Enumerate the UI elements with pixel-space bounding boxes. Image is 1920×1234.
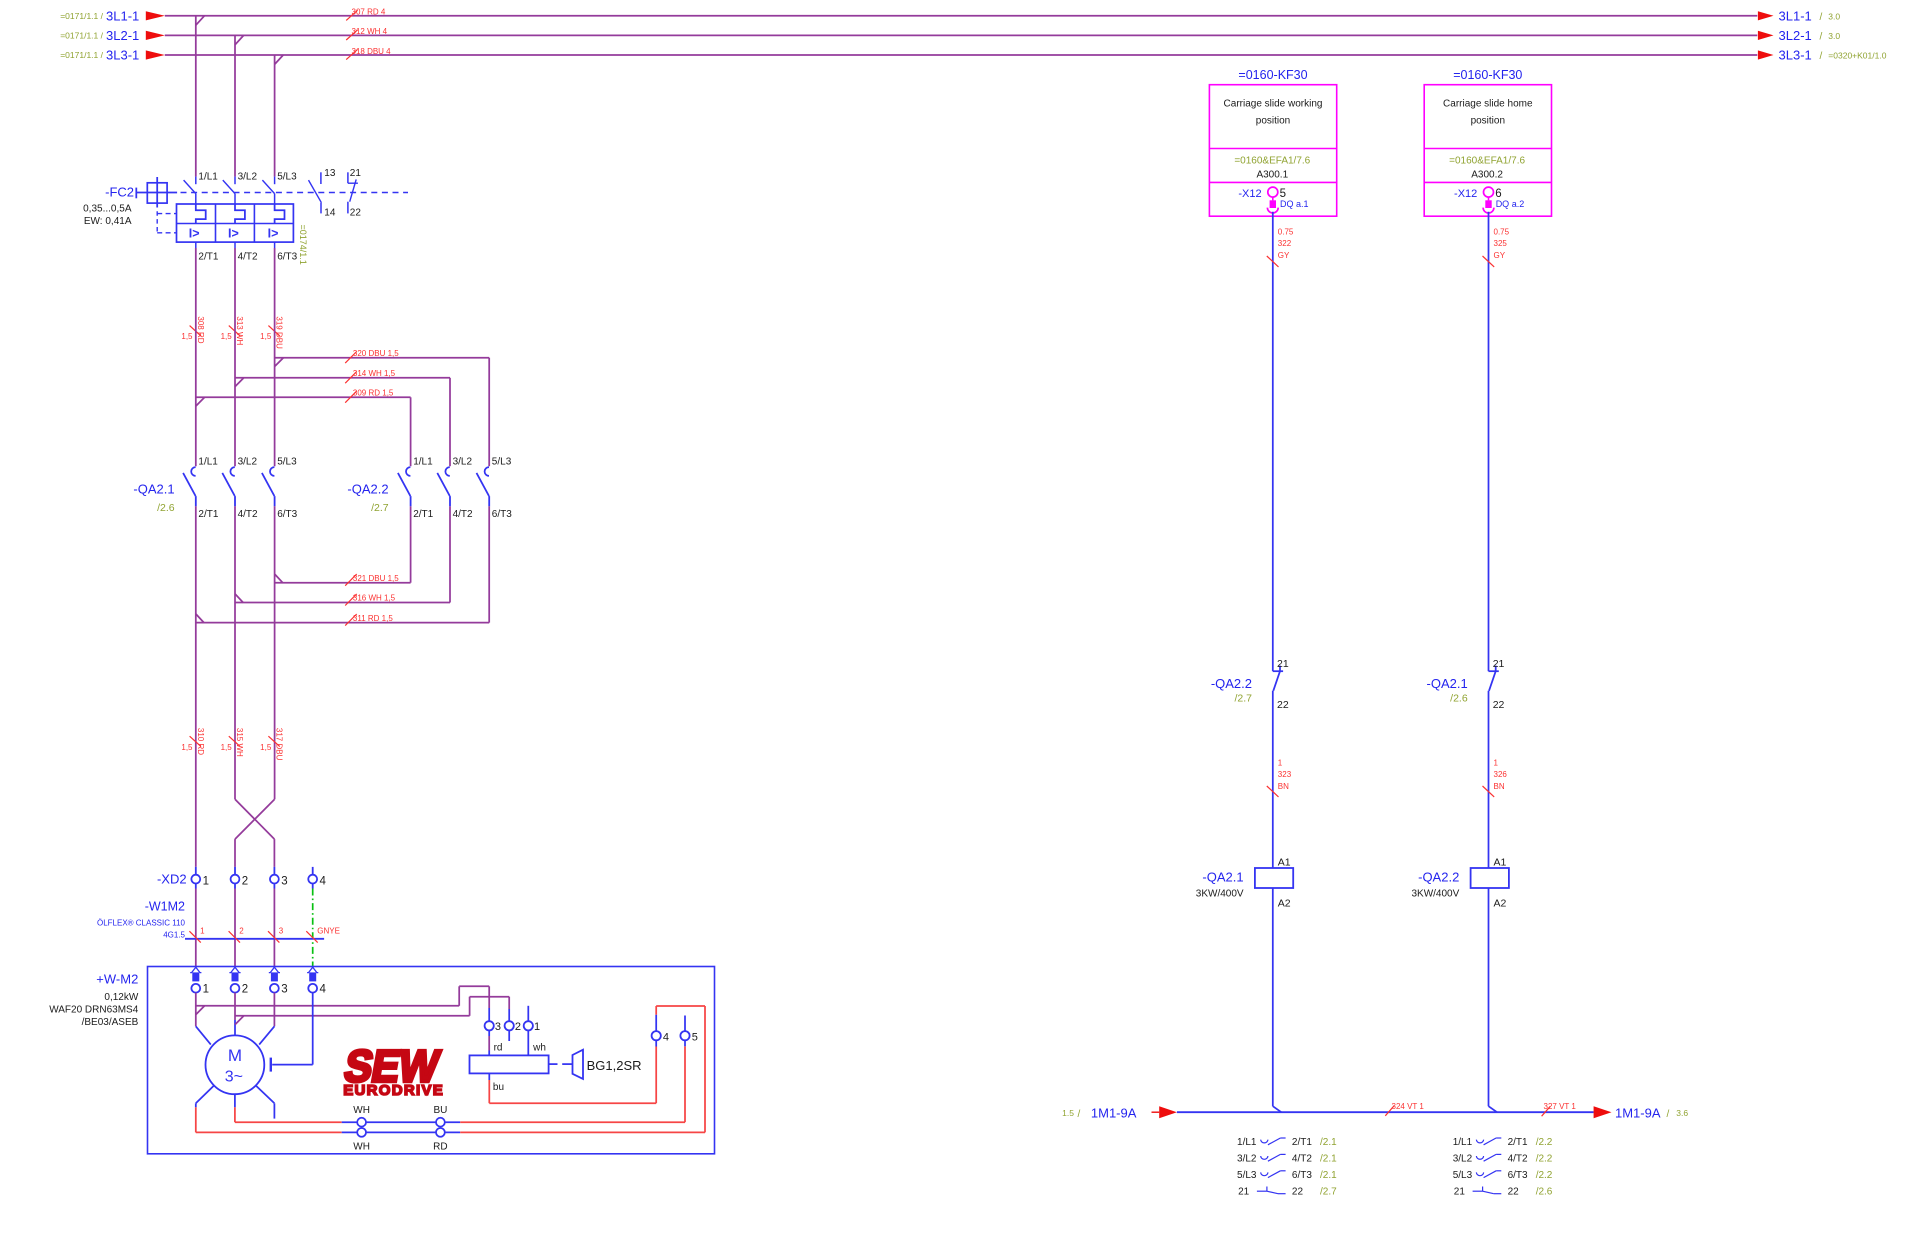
- svg-text:-X12: -X12: [1238, 188, 1261, 200]
- svg-text:BN: BN: [1494, 782, 1505, 791]
- PLC function text Carriage slide working position: [1224, 98, 1323, 126]
- svg-text:GY: GY: [1494, 251, 1506, 260]
- wire bus 3L1-1 horizontal: [165, 16, 1758, 25]
- contactor -QA2.2 NC contact 21/22: [1273, 661, 1283, 691]
- svg-text:319 DBU: 319 DBU: [275, 316, 284, 349]
- motor plug terminal 4: [307, 967, 318, 992]
- breaker FC2 thermal overload box: [177, 204, 294, 242]
- svg-text:BU: BU: [433, 1105, 447, 1116]
- wire bus 3L3-1 horizontal: [165, 55, 1758, 64]
- splice WH lower: [357, 1128, 366, 1137]
- svg-text:4/T2: 4/T2: [238, 509, 258, 520]
- wire L1 QA2.1 to XD2 terminal 1: [195, 506, 197, 867]
- svg-text:5: 5: [1280, 188, 1286, 200]
- svg-text:3.0: 3.0: [1828, 11, 1840, 21]
- svg-text:5/L3: 5/L3: [277, 456, 297, 467]
- svg-text:0,12kW: 0,12kW: [104, 992, 138, 1003]
- svg-text:6/T3: 6/T3: [277, 509, 297, 520]
- svg-text:2/T1: 2/T1: [198, 509, 218, 520]
- svg-text:4/T2: 4/T2: [238, 251, 258, 262]
- svg-text:4: 4: [320, 983, 327, 995]
- svg-text:rd: rd: [494, 1043, 503, 1054]
- wire PE from plug 4 to motor: [272, 993, 313, 1065]
- PLC output box =0160-KF30 (6): [1424, 85, 1551, 217]
- svg-text:308 RD: 308 RD: [196, 316, 205, 343]
- svg-text:3L1-1: 3L1-1: [1779, 8, 1812, 23]
- wire branch to brake terminal 3 (staircase): [196, 986, 489, 1021]
- svg-text:2: 2: [242, 875, 248, 887]
- svg-text:4: 4: [320, 875, 327, 887]
- wire L2 feeder drop to FC2: [234, 35, 236, 176]
- svg-text:A300.2: A300.2: [1471, 169, 1503, 180]
- splice WH upper: [357, 1118, 366, 1127]
- svg-text:-FC2: -FC2: [105, 185, 134, 200]
- svg-text:1: 1: [1278, 758, 1283, 767]
- wire label 327 VT 1: [1542, 1102, 1577, 1116]
- wire rd into rectifier: [488, 1030, 490, 1055]
- svg-text:1: 1: [200, 927, 205, 936]
- svg-text:312 WH 4: 312 WH 4: [352, 27, 388, 36]
- svg-text:1,5: 1,5: [221, 743, 233, 752]
- wire brake 5 stub: [684, 1016, 686, 1032]
- wire splice line lower (WH-RD): [342, 1131, 461, 1133]
- svg-text:307 RD 4: 307 RD 4: [352, 8, 386, 17]
- svg-text:WH: WH: [353, 1142, 370, 1153]
- wire XD2:3 to motor plug: [273, 889, 275, 967]
- svg-text:311 RD 1,5: 311 RD 1,5: [353, 614, 393, 623]
- wire label 319 DBU 1,5: [260, 316, 283, 349]
- coil -QA2.1: [1255, 868, 1293, 888]
- svg-text:315 WH: 315 WH: [235, 728, 244, 757]
- svg-text:I>: I>: [228, 226, 239, 240]
- contactor QA2.1 main contact 5/L3/6/T3: [262, 467, 275, 506]
- svg-text:3KW/400V: 3KW/400V: [1411, 889, 1459, 900]
- svg-text:I>: I>: [268, 226, 279, 240]
- wire label 312 WH 4: [346, 27, 387, 40]
- svg-text:1,5: 1,5: [221, 332, 233, 341]
- svg-text:3L1-1: 3L1-1: [106, 8, 139, 23]
- svg-text:3/L2: 3/L2: [453, 456, 473, 467]
- wire label 310 RD 1,5: [181, 728, 204, 755]
- wire XD2:2 to motor plug: [234, 889, 236, 967]
- svg-text:1: 1: [1494, 758, 1499, 767]
- svg-text:1.5: 1.5: [1062, 1108, 1074, 1118]
- wire motor brake lead left: [196, 1086, 342, 1133]
- breaker FC2 thermal element 1: [196, 204, 206, 224]
- svg-text:2: 2: [515, 1021, 521, 1033]
- svg-text:21: 21: [1493, 658, 1505, 670]
- contactor QA2.2 main contact 1/L1/2/T1: [398, 467, 411, 506]
- svg-text:/: /: [1820, 12, 1823, 23]
- node 3L1-1 source arrow and label: [60, 8, 165, 23]
- wire L3 FC2 to QA2.1: [274, 242, 276, 466]
- wire branch 314 from L2 to QA2.2: [235, 378, 450, 466]
- terminal XD2:3: [270, 867, 279, 889]
- svg-text:5/L3: 5/L3: [1237, 1170, 1257, 1181]
- wire label 325 0.75 GY: [1483, 227, 1510, 267]
- wire contact to coil: [1272, 691, 1274, 868]
- breaker FC2 cross reference =0174/1.1: [298, 225, 308, 265]
- svg-text:EURODRIVE: EURODRIVE: [343, 1082, 444, 1099]
- motor unit box W-M2: [148, 967, 715, 1154]
- svg-text:318 DBU 4: 318 DBU 4: [352, 47, 392, 56]
- svg-text:/2.7: /2.7: [1234, 693, 1252, 705]
- svg-text:A2: A2: [1494, 897, 1507, 909]
- contact mirror QA2.1 3/L2-4/T2 /2.1: [1237, 1154, 1337, 1165]
- svg-text:EW: 0,41A: EW: 0,41A: [84, 216, 132, 227]
- svg-text:/2.6: /2.6: [1450, 693, 1468, 705]
- wire label 316 WH 1,5: [345, 594, 395, 606]
- svg-text:1/L1: 1/L1: [1237, 1137, 1257, 1148]
- svg-text:2/T1: 2/T1: [1508, 1137, 1528, 1148]
- wire motor phase W inside box: [259, 993, 274, 1045]
- wire splice line upper (WH-BU): [342, 1121, 461, 1123]
- svg-text:2/T1: 2/T1: [198, 251, 218, 262]
- svg-text:-QA2.2: -QA2.2: [1418, 870, 1459, 885]
- wire L3 feeder drop to FC2: [274, 55, 276, 177]
- svg-text:=0160-KF30: =0160-KF30: [1453, 68, 1522, 82]
- svg-text:I>: I>: [189, 226, 200, 240]
- svg-text:3~: 3~: [225, 1069, 243, 1086]
- terminal XD2:2: [231, 867, 240, 889]
- svg-text:GY: GY: [1278, 251, 1290, 260]
- svg-text:=0171/1.1 /: =0171/1.1 /: [60, 11, 103, 21]
- svg-text:22: 22: [350, 207, 362, 218]
- contact mirror QA2.1 21-22 /2.7: [1238, 1186, 1337, 1197]
- brake terminal 4: [652, 1031, 661, 1040]
- svg-text:=0160&EFA1/7.6: =0160&EFA1/7.6: [1234, 155, 1310, 166]
- motor plug terminal 3: [269, 967, 280, 992]
- svg-text:-X12: -X12: [1454, 188, 1477, 200]
- wire branch 311 from QA2.2 back to L1: [196, 506, 489, 622]
- cable W1M2 conductor mark 2: [229, 927, 245, 943]
- svg-text:-QA2.1: -QA2.1: [133, 482, 174, 497]
- node 1M1-9A destination arrow and label: [1594, 1105, 1689, 1120]
- wire label 313 WH 1,5: [221, 316, 244, 345]
- svg-text:13: 13: [324, 168, 336, 179]
- wire branch 316 from QA2.2 back to L2: [235, 506, 450, 602]
- wire L3 QA2.1 down to crossover: [274, 506, 276, 799]
- motor plug terminal 2: [229, 967, 240, 992]
- cable W1M2 line: [185, 938, 324, 940]
- contactor QA2.2 main contact 5/L3/6/T3: [477, 467, 490, 506]
- svg-text:DQ a.1: DQ a.1: [1280, 199, 1309, 209]
- wire brake 1 stub: [527, 1006, 529, 1021]
- svg-text:22: 22: [1277, 699, 1289, 711]
- coil -QA2.2: [1471, 868, 1509, 888]
- wire label 321 DBU 1,5: [345, 574, 399, 586]
- svg-text:5/L3: 5/L3: [277, 172, 297, 183]
- breaker FC2 main contact 1/L1/2/T1: [184, 177, 196, 204]
- svg-text:3/L2: 3/L2: [238, 456, 258, 467]
- PLC function text Carriage slide home position: [1443, 98, 1533, 126]
- svg-text:0.75: 0.75: [1494, 227, 1510, 236]
- svg-text:-QA2.2: -QA2.2: [347, 482, 388, 497]
- svg-text:Carriage slide home: Carriage slide home: [1443, 98, 1533, 109]
- svg-text:3: 3: [281, 875, 287, 887]
- svg-text:A300.1: A300.1: [1256, 169, 1288, 180]
- wire L1 FC2 to QA2.1: [195, 242, 197, 466]
- wire brake 4 to bu node: [489, 1040, 656, 1103]
- wire label 309 RD 1,5: [345, 389, 394, 403]
- svg-text:/2.1: /2.1: [1320, 1137, 1337, 1148]
- motor PE terminal bar: [270, 1058, 272, 1072]
- svg-text:-QA2.2: -QA2.2: [1211, 676, 1252, 691]
- contactor QA2.1 main contact 1/L1/2/T1: [183, 467, 196, 506]
- node 3L3-1 destination arrow and label: [1758, 48, 1887, 63]
- svg-text:BN: BN: [1278, 782, 1289, 791]
- svg-text:14: 14: [324, 207, 336, 218]
- svg-text:/2.6: /2.6: [157, 502, 175, 514]
- cable W1M2 conductor mark GNYE: [306, 927, 340, 943]
- svg-text:3L3-1: 3L3-1: [1779, 48, 1812, 63]
- svg-text:/: /: [1667, 1109, 1670, 1120]
- wire label 318 DBU 4: [346, 47, 391, 60]
- brake release speaker symbol: [549, 1050, 583, 1079]
- svg-text:/: /: [1820, 51, 1823, 62]
- cable W1M2 conductor mark 1: [189, 927, 205, 943]
- svg-text:3: 3: [279, 927, 284, 936]
- svg-text:=0320+K01/1.0: =0320+K01/1.0: [1828, 51, 1886, 61]
- svg-text:GNYE: GNYE: [317, 927, 340, 936]
- svg-text:3/L2: 3/L2: [1453, 1154, 1473, 1165]
- wire label 324 VT 1: [1385, 1102, 1424, 1116]
- node 3L2-1 source arrow and label: [60, 28, 165, 43]
- svg-text:=0160-KF30: =0160-KF30: [1238, 68, 1307, 82]
- svg-text:4G1.5: 4G1.5: [163, 931, 185, 940]
- wire branch 320 from L3 to QA2.2: [275, 358, 490, 467]
- contact mirror QA2.2 21-22 /2.6: [1454, 1186, 1553, 1197]
- svg-text:1/L1: 1/L1: [198, 456, 218, 467]
- motor plug terminal 1: [190, 967, 201, 992]
- svg-text:4/T2: 4/T2: [453, 509, 473, 520]
- svg-text:3: 3: [281, 983, 287, 995]
- svg-text:1/L1: 1/L1: [1453, 1137, 1473, 1148]
- svg-text:A1: A1: [1278, 857, 1291, 869]
- wire coil to bus 1M1-9A: [1489, 888, 1498, 1112]
- wire motor brake lead middle: [235, 1094, 342, 1122]
- cable W1M2 conductor mark 3: [268, 927, 284, 943]
- svg-text:4/T2: 4/T2: [1292, 1154, 1312, 1165]
- wire contact to coil: [1488, 691, 1490, 868]
- svg-text:22: 22: [1493, 699, 1505, 711]
- svg-text:1: 1: [203, 875, 209, 887]
- breaker FC2 thermal element 2: [235, 204, 245, 224]
- svg-text:ÖLFLEX® CLASSIC 110: ÖLFLEX® CLASSIC 110: [97, 918, 186, 927]
- brake terminal 3: [485, 1021, 494, 1030]
- PLC connector socket pin 6: [1483, 187, 1494, 213]
- svg-text:316 WH 1,5: 316 WH 1,5: [353, 594, 396, 603]
- wire branch to brake terminal 2 (staircase): [235, 997, 509, 1025]
- contact mirror QA2.2 1/L1-2/T1 /2.2: [1453, 1137, 1553, 1148]
- svg-text:1,5: 1,5: [260, 332, 272, 341]
- svg-text:21: 21: [1238, 1186, 1250, 1197]
- svg-text:6: 6: [1495, 188, 1501, 200]
- wire GNYE XD2:4 to motor plug: [312, 889, 314, 967]
- wire coil to bus 1M1-9A: [1273, 888, 1282, 1112]
- svg-text:2/T1: 2/T1: [413, 509, 433, 520]
- svg-text:/2.2: /2.2: [1536, 1170, 1553, 1181]
- svg-text:-W1M2: -W1M2: [145, 900, 185, 914]
- wire label 308 RD 1,5: [181, 316, 204, 343]
- wire label 326 1 BN: [1483, 758, 1508, 797]
- wire motor spare lead right: [256, 1086, 275, 1119]
- svg-text:3/L2: 3/L2: [1237, 1154, 1257, 1165]
- breaker FC2 manual operator square: [136, 177, 177, 208]
- svg-text:5/L3: 5/L3: [1453, 1170, 1473, 1181]
- brake terminal 5: [680, 1031, 689, 1040]
- wire label 317 DBU 1,5: [260, 728, 283, 761]
- breaker FC2 mechanical linkage dashed: [157, 193, 408, 233]
- svg-text:22: 22: [1292, 1186, 1304, 1197]
- svg-text:1,5: 1,5: [181, 332, 193, 341]
- wire L2 QA2.1 down to crossover: [234, 506, 236, 799]
- svg-text:3L2-1: 3L2-1: [1779, 28, 1812, 43]
- svg-text:=0174/1.1: =0174/1.1: [298, 225, 308, 265]
- wire from PLC DQ a.2 down to contact: [1488, 212, 1490, 661]
- contact mirror QA2.1 5/L3-6/T3 /2.1: [1237, 1170, 1337, 1181]
- splice RD: [436, 1128, 445, 1137]
- wire red lower loop to brake circle 4: [460, 1006, 705, 1132]
- svg-text:BG1,2SR: BG1,2SR: [587, 1058, 642, 1073]
- contactor QA2.2 main contact 3/L2/4/T2: [437, 467, 450, 506]
- svg-text:1M1-9A: 1M1-9A: [1615, 1105, 1661, 1120]
- svg-text:-XD2: -XD2: [157, 872, 187, 887]
- svg-text:/2.1: /2.1: [1320, 1154, 1337, 1165]
- svg-text:1,5: 1,5: [181, 743, 193, 752]
- wire bus 1M1-9A: [1177, 1111, 1594, 1113]
- wire label 320 DBU 1,5: [345, 349, 399, 363]
- wire label 311 RD 1,5: [345, 614, 393, 626]
- svg-text:3: 3: [495, 1021, 501, 1033]
- svg-text:WAF20 DRN63MS4: WAF20 DRN63MS4: [49, 1004, 139, 1015]
- contact mirror QA2.1 1/L1-2/T1 /2.1: [1237, 1137, 1337, 1148]
- breaker FC2 main contact 3/L2/4/T2: [223, 177, 235, 204]
- wire motor phase V inside box: [234, 993, 236, 1036]
- wire label 315 WH 1,5: [221, 728, 244, 757]
- wire branch 309 from L1 to QA2.2: [196, 397, 411, 466]
- svg-text:M: M: [228, 1046, 242, 1065]
- svg-text:327 VT 1: 327 VT 1: [1544, 1102, 1577, 1111]
- wire branch 321 from QA2.2 back to L3: [275, 506, 411, 582]
- SEW EURODRIVE logo: [341, 1042, 444, 1099]
- svg-text:WH: WH: [353, 1105, 370, 1116]
- svg-text:wh: wh: [532, 1043, 546, 1054]
- svg-text:313 WH: 313 WH: [235, 316, 244, 345]
- svg-text:1M1-9A: 1M1-9A: [1091, 1105, 1137, 1120]
- motor M1 circle: [206, 1035, 265, 1094]
- svg-text:323: 323: [1278, 770, 1292, 779]
- svg-text:3.6: 3.6: [1676, 1108, 1688, 1118]
- svg-text:=0160&EFA1/7.6: =0160&EFA1/7.6: [1449, 155, 1525, 166]
- svg-text:6/T3: 6/T3: [277, 251, 297, 262]
- wire brake 2 stub: [508, 1030, 510, 1041]
- contact mirror QA2.2 3/L2-4/T2 /2.2: [1453, 1154, 1553, 1165]
- node 3L3-1 source arrow and label: [60, 48, 165, 63]
- svg-text:1: 1: [203, 983, 209, 995]
- svg-text:310 RD: 310 RD: [196, 728, 205, 755]
- wire bus 3L2-1 horizontal: [165, 35, 1758, 44]
- brake rectifier box: [470, 1055, 549, 1073]
- svg-text:bu: bu: [493, 1082, 504, 1093]
- svg-text:3/L2: 3/L2: [238, 172, 258, 183]
- svg-text:2: 2: [242, 983, 248, 995]
- svg-text:/: /: [1078, 1109, 1081, 1120]
- svg-text:/2.2: /2.2: [1536, 1154, 1553, 1165]
- svg-text:21: 21: [1277, 658, 1289, 670]
- wire label 314 WH 1,5: [345, 369, 395, 383]
- contact mirror QA2.2 5/L3-6/T3 /2.2: [1453, 1170, 1553, 1181]
- svg-text:21: 21: [350, 168, 362, 179]
- breaker FC2 main contact 5/L3/6/T3: [262, 177, 274, 204]
- svg-text:0.75: 0.75: [1278, 227, 1294, 236]
- svg-text:314 WH 1,5: 314 WH 1,5: [353, 369, 396, 378]
- svg-text:A2: A2: [1278, 897, 1291, 909]
- svg-text:320 DBU 1,5: 320 DBU 1,5: [353, 349, 399, 358]
- wire L1 feeder drop to FC2: [195, 16, 197, 177]
- svg-text:=0171/1.1 /: =0171/1.1 /: [60, 50, 103, 60]
- svg-text:4: 4: [663, 1031, 669, 1043]
- svg-text:324 VT 1: 324 VT 1: [1392, 1102, 1425, 1111]
- svg-text:/2.7: /2.7: [371, 502, 389, 514]
- svg-text:321 DBU 1,5: 321 DBU 1,5: [353, 574, 399, 583]
- svg-text:2: 2: [239, 927, 244, 936]
- wire L2 FC2 to QA2.1: [234, 242, 236, 466]
- wire label 307 RD 4: [346, 8, 386, 21]
- svg-text:+W-M2: +W-M2: [96, 971, 138, 986]
- svg-text:6/T3: 6/T3: [1292, 1170, 1312, 1181]
- svg-text:4/T2: 4/T2: [1508, 1154, 1528, 1165]
- terminal XD2:4: [308, 867, 317, 889]
- svg-text:=0171/1.1 /: =0171/1.1 /: [60, 31, 103, 41]
- node 3L1-1 destination arrow and label: [1758, 8, 1840, 23]
- brake terminal 1: [524, 1021, 533, 1030]
- PLC output box =0160-KF30 (5): [1209, 85, 1336, 217]
- svg-text:3L2-1: 3L2-1: [106, 28, 139, 43]
- wire XD2:1 to motor plug: [195, 889, 197, 967]
- terminal XD2:1: [191, 867, 200, 889]
- PLC connector socket pin 5: [1267, 187, 1278, 213]
- svg-text:325: 325: [1494, 239, 1508, 248]
- svg-text:3L3-1: 3L3-1: [106, 48, 139, 63]
- breaker FC2 aux contact 21/22: [348, 172, 358, 213]
- svg-text:1/L1: 1/L1: [413, 456, 433, 467]
- node 3L2-1 destination arrow and label: [1758, 28, 1840, 43]
- svg-text:3KW/400V: 3KW/400V: [1196, 889, 1244, 900]
- svg-text:position: position: [1256, 115, 1290, 126]
- breaker FC2 thermal element 3: [275, 204, 285, 224]
- svg-text:position: position: [1471, 115, 1505, 126]
- svg-text:-QA2.1: -QA2.1: [1427, 676, 1468, 691]
- svg-text:/: /: [1820, 31, 1823, 42]
- svg-text:/2.1: /2.1: [1320, 1170, 1337, 1181]
- contactor QA2.1 main contact 3/L2/4/T2: [222, 467, 235, 506]
- svg-text:1: 1: [534, 1021, 540, 1033]
- wire motor phase U inside box: [196, 993, 211, 1045]
- svg-text:6/T3: 6/T3: [492, 509, 512, 520]
- svg-text:1,5: 1,5: [260, 743, 272, 752]
- svg-text:1/L1: 1/L1: [198, 172, 218, 183]
- svg-text:-QA2.1: -QA2.1: [1202, 870, 1243, 885]
- svg-text:322: 322: [1278, 239, 1292, 248]
- svg-text:A1: A1: [1494, 857, 1507, 869]
- svg-text:RD: RD: [433, 1142, 447, 1153]
- svg-text:3.0: 3.0: [1828, 31, 1840, 41]
- svg-text:5: 5: [692, 1031, 698, 1043]
- wire red upper to brake circle 5: [460, 1040, 685, 1122]
- svg-text:22: 22: [1508, 1186, 1520, 1197]
- node 1M1-9A source arrow and label: [1062, 1105, 1177, 1120]
